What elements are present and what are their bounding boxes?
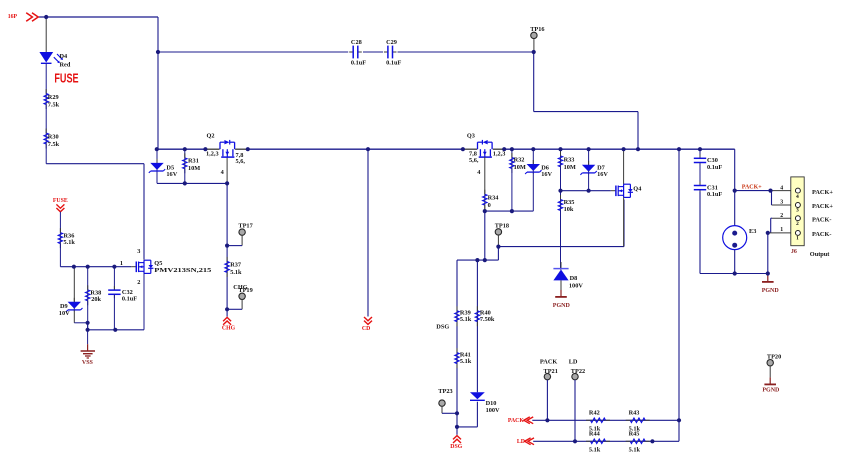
svg-text:5.1k: 5.1k: [460, 316, 472, 323]
svg-text:5.1k: 5.1k: [589, 446, 601, 453]
svg-text:Q3: Q3: [467, 132, 475, 139]
svg-text:VSS: VSS: [82, 360, 94, 366]
svg-text:1,2,3: 1,2,3: [493, 150, 506, 157]
svg-text:10V: 10V: [59, 310, 70, 317]
svg-text:PACK: PACK: [540, 358, 557, 365]
svg-text:0.1uF: 0.1uF: [122, 296, 137, 303]
svg-text:100V: 100V: [486, 407, 500, 414]
svg-text:4: 4: [796, 194, 799, 200]
svg-text:7.50k: 7.50k: [480, 316, 495, 323]
svg-text:1: 1: [796, 236, 799, 242]
svg-text:10M: 10M: [188, 165, 200, 172]
svg-text:R44: R44: [589, 430, 601, 437]
svg-text:CHG: CHG: [222, 325, 236, 331]
svg-text:Q2: Q2: [207, 132, 215, 139]
svg-text:CD: CD: [362, 326, 370, 332]
svg-text:3: 3: [137, 248, 140, 255]
svg-text:PGND: PGND: [762, 288, 780, 294]
svg-text:7.5k: 7.5k: [48, 102, 60, 109]
svg-text:10M: 10M: [514, 164, 526, 171]
svg-text:R29: R29: [48, 94, 59, 101]
svg-text:20k: 20k: [91, 296, 101, 303]
svg-text:R45: R45: [629, 430, 640, 437]
svg-text:1,2,3: 1,2,3: [206, 150, 219, 157]
svg-text:2: 2: [780, 213, 783, 219]
svg-text:FUSE: FUSE: [54, 70, 78, 85]
svg-text:5.1k: 5.1k: [629, 446, 641, 453]
svg-text:5,6,: 5,6,: [469, 157, 479, 164]
svg-text:5.1k: 5.1k: [230, 269, 242, 276]
svg-text:3: 3: [796, 208, 799, 214]
svg-text:4: 4: [780, 185, 783, 191]
svg-text:D9: D9: [60, 303, 68, 310]
svg-text:C28: C28: [351, 39, 362, 46]
svg-text:7.5k: 7.5k: [48, 141, 60, 148]
svg-text:2: 2: [137, 279, 140, 286]
svg-text:16V: 16V: [541, 171, 552, 178]
svg-text:5.1k: 5.1k: [64, 239, 76, 246]
svg-text:R33: R33: [564, 157, 575, 164]
svg-text:R43: R43: [629, 409, 640, 416]
svg-text:TP23: TP23: [438, 388, 452, 395]
svg-text:16V: 16V: [166, 171, 177, 178]
svg-text:C29: C29: [386, 39, 397, 46]
svg-text:E3: E3: [749, 228, 756, 235]
svg-text:D4: D4: [60, 53, 69, 60]
svg-text:R35: R35: [564, 199, 575, 206]
svg-text:Q5: Q5: [154, 260, 162, 267]
svg-text:TP22: TP22: [571, 368, 585, 375]
svg-text:1: 1: [780, 227, 783, 233]
svg-text:R37: R37: [230, 262, 241, 269]
svg-text:16P: 16P: [8, 14, 18, 20]
svg-text:TP18: TP18: [495, 222, 509, 229]
svg-text:0.1uF: 0.1uF: [351, 59, 366, 66]
svg-text:PACK+: PACK+: [742, 185, 762, 191]
svg-text:LD: LD: [569, 358, 578, 365]
svg-text:3: 3: [780, 199, 783, 205]
svg-text:PACK-: PACK-: [812, 231, 831, 238]
svg-text:100V: 100V: [569, 283, 583, 290]
svg-text:R32: R32: [514, 157, 525, 164]
svg-text:Output: Output: [810, 251, 831, 258]
svg-text:DSG: DSG: [436, 324, 449, 331]
svg-text:R31: R31: [188, 157, 199, 164]
svg-text:1: 1: [120, 260, 123, 267]
svg-text:Red: Red: [60, 61, 71, 68]
svg-text:Q4: Q4: [633, 186, 642, 193]
svg-text:PGND: PGND: [762, 388, 780, 394]
svg-text:R34: R34: [488, 194, 500, 201]
svg-text:PACK+: PACK+: [812, 189, 833, 196]
svg-text:R30: R30: [48, 134, 59, 141]
svg-text:TP16: TP16: [530, 26, 544, 33]
svg-text:TP21: TP21: [544, 368, 558, 375]
svg-text:TP19: TP19: [238, 287, 252, 294]
svg-text:PACK+: PACK+: [812, 203, 833, 210]
svg-text:0.1uF: 0.1uF: [386, 59, 401, 66]
svg-text:0.1uF: 0.1uF: [707, 164, 722, 171]
svg-text:TP20: TP20: [767, 354, 781, 361]
svg-text:0: 0: [488, 202, 491, 209]
svg-text:TP17: TP17: [238, 222, 252, 229]
svg-text:R42: R42: [589, 409, 600, 416]
svg-text:DSG: DSG: [450, 444, 462, 450]
svg-text:5.1k: 5.1k: [460, 358, 472, 365]
svg-text:16V: 16V: [597, 171, 608, 178]
svg-text:LD: LD: [517, 439, 525, 445]
svg-text:J6: J6: [791, 249, 797, 255]
svg-text:PMV213SN,215: PMV213SN,215: [154, 267, 211, 274]
svg-text:PACK: PACK: [508, 418, 524, 424]
svg-text:PGND: PGND: [553, 303, 571, 309]
svg-text:10M: 10M: [564, 164, 576, 171]
svg-text:0.1uF: 0.1uF: [707, 191, 722, 198]
svg-text:5,6,: 5,6,: [236, 158, 246, 165]
svg-text:PACK-: PACK-: [812, 217, 831, 224]
svg-text:FUSE: FUSE: [53, 198, 68, 204]
svg-text:10k: 10k: [564, 206, 574, 213]
svg-text:D8: D8: [570, 275, 578, 282]
svg-text:2: 2: [796, 221, 799, 227]
